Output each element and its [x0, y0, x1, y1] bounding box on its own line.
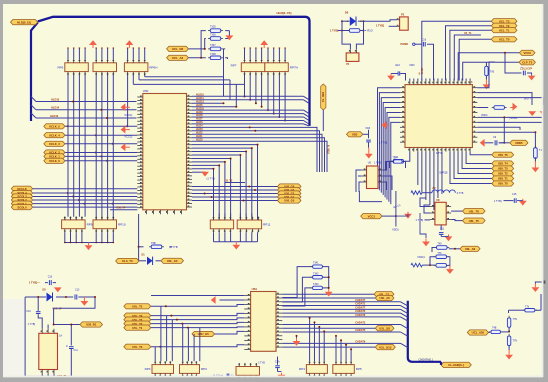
svg-text:UCL_A3: UCL_A3: [172, 56, 184, 60]
svg-text:U3L_A6: U3L_A6: [465, 247, 476, 251]
tick mark right edge: [544, 281, 546, 284]
wire thick into label: [440, 362, 442, 365]
wire C11 down to arrow: [368, 142, 370, 147]
wires RP11 top pins up: [213, 213, 215, 220]
inductor L2: [432, 190, 455, 193]
svg-text:1 TYB]—: 1 TYB]—: [29, 281, 40, 285]
net label UCLK_5: [44, 124, 65, 129]
wires RP12/13 bottom stubs: [154, 376, 156, 378]
wire cap C15: [504, 200, 514, 202]
wire C11B node: [70, 325, 72, 346]
wire node down to VDD1 text: [395, 216, 397, 226]
net label U5L_T1: [124, 325, 151, 330]
wire U5A pin0 long left: [151, 295, 244, 297]
net label U5U_G5 mid wire: [192, 331, 215, 336]
svg-text:CHDAT2: CHDAT2: [355, 322, 366, 325]
svg-text:U50_G0: U50_G0: [284, 199, 295, 203]
wires RP7 bottom columns staircase to U50 rows: [244, 74, 246, 96]
wires U5B bottom pins down: [41, 374, 43, 376]
wire PGND to C16: [415, 43, 422, 45]
wire T4B to junction2: [502, 331, 510, 333]
wire T343 left down: [282, 288, 311, 306]
wires U50 right pins HLD rows to bus: [192, 95, 304, 97]
wire T335 left lead down: [201, 31, 206, 58]
svg-text:CLP_T5: CLP_T5: [522, 60, 533, 64]
svg-text:RP4: RP4: [299, 367, 305, 371]
svg-text:U5A: U5A: [252, 287, 258, 291]
svg-text:U3L_2/15: U3L_2/15: [379, 345, 392, 349]
svg-text:RP9: RP9: [87, 223, 93, 227]
wire U5A right pin1 to label U3L_A5: [282, 297, 375, 299]
wires RP9/RP10 bottom pins to ground rail: [64, 232, 66, 242]
wire U5A right pin14 to label U3L_2/15: [282, 346, 375, 348]
window frame left: [0, 0, 3, 382]
wire C12 to arrow: [440, 235, 442, 237]
wire T49 to label U3L_A6: [449, 248, 460, 250]
svg-text:C1A: C1A: [275, 360, 280, 363]
svg-text:CHDAT6: CHDAT6: [355, 314, 366, 317]
svg-text:T49: T49: [437, 243, 442, 246]
wires QFP left pins bend down: [378, 88, 401, 188]
net label U3L_T6: [463, 209, 486, 214]
svg-text:CHDAT1: CHDAT1: [355, 303, 366, 306]
IC U5A left pins: [244, 294, 250, 296]
net label VCC0: [519, 50, 535, 55]
wire T1b left: [390, 161, 393, 168]
wire QFP top pin to VCC0 label: [458, 53, 519, 81]
svg-text:CL−CHD[0..]: CL−CHD[0..]: [448, 363, 464, 367]
net label U50_R1: [80, 322, 103, 327]
power arrow below C13: [81, 301, 89, 306]
capacitor C16 bottom: [49, 280, 51, 285]
svg-text:T337: T337: [210, 44, 216, 47]
resistor T343: [310, 286, 324, 289]
IC U50 left pins: [137, 96, 143, 98]
resistor network RP13: [180, 361, 208, 377]
wire T1A resistor chain right edge: [534, 132, 536, 149]
IC U6 body: [367, 166, 379, 189]
svg-text:RP7H: RP7H: [290, 65, 298, 69]
svg-text:PGND: PGND: [401, 42, 409, 46]
wire L-shape from top: [359, 191, 382, 202]
wire QFP right row4 through resistor T30: [477, 107, 488, 109]
svg-text:C13: C13: [75, 288, 80, 291]
svg-text:∘-R2O: ∘-R2O: [365, 29, 373, 33]
power arrow below U50 right pin: [201, 172, 209, 177]
net label U3L_A6: [460, 246, 480, 251]
resistor network RP11L: [210, 217, 233, 233]
IC U4 top pins: [408, 81, 410, 85]
resistor network RP6M: [93, 59, 117, 75]
wire top row with D5 and C13: [25, 296, 46, 298]
svg-text:T343: T343: [313, 283, 319, 286]
wire U50 pin to power arrow stub: [192, 171, 205, 173]
wire QFP top pin to CLP label: [463, 62, 519, 80]
power arrow right of VCC1 node: [404, 212, 412, 219]
IC U50 right pins: [187, 95, 193, 97]
window frame bottom: [0, 377, 548, 382]
wire QFP right row2 to corner arrows: [477, 98, 543, 105]
svg-text:|XUT7: |XUT7: [524, 98, 532, 101]
svg-text:VD5: VD5: [352, 132, 358, 136]
svg-text:C11: C11: [440, 228, 445, 231]
wires RP6M bottom columns down to RP10: [95, 74, 97, 217]
wires U50 lower right pins to label stack: [192, 186, 278, 188]
IC U5B top pins: [41, 329, 43, 334]
svg-text:HLD[0..15]: HLD[0..15]: [17, 20, 31, 24]
svg-text:1 TYB]: 1 TYB]: [330, 29, 338, 33]
net label U50_G4: [278, 184, 302, 189]
net label U5X_T3: [492, 166, 514, 171]
net label U5L_T2: [124, 321, 151, 326]
svg-text:UCLK_5: UCLK_5: [49, 124, 60, 128]
resistor T4B: [489, 330, 503, 333]
svg-text:(1 TYB: (1 TYB: [169, 245, 178, 249]
wire U50_1P node: [54, 297, 95, 318]
svg-text:UCLK_0: UCLK_0: [49, 159, 60, 163]
net label U5L_T4: [124, 313, 151, 318]
wires QFP bottom middle cols down: [421, 152, 423, 193]
wire from QFP col down to U8 left pins: [420, 198, 430, 207]
wire T342 left down: [282, 277, 311, 302]
resistor T7b chain: [523, 309, 537, 312]
wire QFP right row VDD1: [477, 116, 542, 118]
wire right chain top: [535, 282, 543, 284]
wire D6 row to connector P2: [366, 20, 397, 21]
svg-text:N_0919: N_0919: [327, 145, 330, 154]
wire QFP right row0 up: [477, 62, 495, 88]
svg-text:RP10: RP10: [118, 223, 126, 227]
capacitor C11 under VD5: [366, 140, 371, 142]
svg-text:1 TYB]: 1 TYB]: [416, 219, 424, 222]
svg-text:UCLK_3: UCLK_3: [49, 142, 60, 146]
resistor T7b2 row: [434, 255, 449, 259]
net label UCL_D3: [167, 46, 189, 51]
input arrow VCC1 left of U50 row2: [121, 126, 130, 134]
svg-text:U3L_2/5: U3L_2/5: [379, 326, 390, 330]
resistor network RP7L: [241, 59, 264, 75]
svg-text:U5X_T3: U5X_T3: [498, 167, 508, 171]
net label U3L_G3: [161, 258, 184, 263]
svg-text:E10: E10: [396, 64, 401, 67]
svg-text:ULA_T3: ULA_T3: [122, 259, 133, 263]
wires RP7 top pins up: [244, 48, 246, 59]
resistor T338: [208, 56, 223, 60]
IC U5A right pins: [276, 293, 282, 295]
svg-text:CHDAT6: CHDAT6: [355, 340, 366, 343]
svg-text:P1: P1: [346, 62, 350, 66]
power arrow VCC over RP6H: [126, 40, 134, 48]
IC U8 pins: [430, 205, 435, 207]
power arrow right of C15: [519, 199, 527, 206]
IC U5A body: [251, 292, 276, 352]
resistor network RP11H: [237, 217, 271, 233]
wire U6 left pins: [356, 170, 362, 192]
svg-text:TTb: TTb: [437, 252, 442, 255]
svg-text:U3L_T6: U3L_T6: [469, 209, 480, 213]
wire QFP right row1 to corner arrows: [477, 93, 532, 105]
IC U50 body: [143, 94, 187, 210]
sheet pale corner bottom-left: [3, 299, 24, 377]
wire HLD14: [36, 109, 137, 111]
tick mark right edge over frame: [544, 281, 546, 284]
capacitor E10: [398, 71, 400, 75]
IC U4 bottom pins: [408, 148, 410, 152]
svg-text:VCC0: VCC0: [523, 51, 531, 55]
net label U3L_A5: [375, 295, 394, 300]
svg-text:1 TYB]: 1 TYB]: [494, 200, 502, 203]
wire C1A down: [277, 368, 279, 371]
wire zigzag to Tb resistor: [422, 264, 435, 266]
svg-text:HLD5: HLD5: [196, 104, 203, 107]
net label U5X_T1: [492, 176, 514, 181]
svg-text:T9B: T9B: [151, 242, 156, 245]
wires U5A left pins to label column: [151, 305, 245, 307]
net label U50_G1: [278, 194, 302, 199]
resistor T7N vertical: [507, 316, 510, 330]
resistor network RP7H: [265, 59, 298, 75]
bus entry HLD13: [31, 113, 36, 118]
net label UCL_T1: [491, 28, 517, 33]
net label U50_G2: [278, 191, 302, 196]
input arrow left of QFP: [382, 121, 389, 129]
net label UCL_T0: [491, 37, 517, 42]
IC U8 body: [435, 202, 446, 225]
resistor T341: [310, 265, 324, 268]
svg-text:T342: T342: [313, 272, 319, 275]
wire into inductor: [422, 192, 432, 194]
power arrow below RP9/RP10: [85, 245, 93, 250]
resistor network RP12: [145, 361, 174, 377]
svg-text:T7N: T7N: [513, 340, 518, 343]
window inner highlight right: [542, 4, 544, 377]
svg-text:HLD[0..15]: HLD[0..15]: [277, 11, 292, 15]
wires RP9 top pins up to horizontal wires: [64, 217, 66, 220]
IC U6 pins: [362, 169, 367, 171]
svg-text:U3 #1: U3 #1: [420, 68, 423, 75]
svg-text:U5X_T1: U5X_T1: [498, 177, 508, 181]
svg-text:T7N: T7N: [513, 318, 518, 321]
svg-text:CHDATA[0..]: CHDATA[0..]: [419, 358, 434, 362]
wire U50 area down to T9B: [138, 214, 140, 261]
net label ULA_T3: [116, 258, 139, 263]
wires RP11 bottom pins to ground rail: [213, 232, 215, 242]
wire U8 right pin1 to label U3L_T6: [451, 210, 462, 212]
wires QFP remaining top pins short stubs: [409, 79, 411, 81]
bus CHDATA vertical: [408, 301, 441, 362]
net label U5L_T5: [124, 304, 151, 309]
svg-text:C10: C10: [26, 310, 31, 313]
net label UCLK_0: [44, 158, 65, 163]
wire below vertical label: [322, 110, 324, 131]
wire E10 node: [391, 74, 406, 81]
resistor T335: [208, 29, 223, 33]
svg-text:VCC1: VCC1: [368, 214, 376, 218]
resistor T342: [310, 276, 324, 279]
wire U50 row HLD12 up at x222: [192, 102, 224, 104]
power arrow chain top: [532, 287, 540, 292]
wire U8 right pin2 to label U3L_T5: [451, 220, 462, 221]
svg-text:U5L_T5: U5L_T5: [132, 304, 143, 308]
wires QFP bottom cols to right label stack: [470, 152, 492, 155]
IC U5B body: [39, 333, 58, 369]
wires U50 rows to middle vertical bundle: [192, 127, 317, 172]
wire UCL_D3 label to resistor T337: [189, 48, 206, 50]
svg-text:HLD15: HLD15: [51, 97, 60, 101]
wire T51 top: [485, 62, 487, 66]
net label VDD5: [510, 140, 528, 145]
net label SCOL4: [11, 190, 32, 195]
net label SCOL3: [11, 194, 32, 199]
wire D6 loop right vertical: [356, 21, 363, 49]
header P1 body: [346, 53, 359, 62]
power arrow below C11: [365, 154, 373, 159]
resistor network RP10: [93, 217, 126, 233]
svg-text:VCC1]: VCC1]: [124, 113, 132, 117]
wire from RP6H pin2 right: [133, 83, 244, 85]
wire U5B pin2 up: [47, 325, 49, 329]
wire T338 right lead down: [225, 58, 227, 59]
svg-text:(1 TYB: (1 TYB: [207, 177, 216, 181]
resistor T9B: [149, 245, 164, 249]
svg-text:U5X_T4: U5X_T4: [498, 162, 508, 166]
IC U4 QFP body: [405, 85, 472, 148]
svg-text:SHPQE: SHPQE: [439, 171, 448, 174]
svg-text:UCL_T1: UCL_T1: [499, 28, 510, 32]
net label VD5: [347, 132, 363, 137]
vertical label U50_TX on wire: [321, 84, 326, 110]
svg-text:U50_TX: U50_TX: [321, 92, 325, 102]
wires U50 rows staircase down to RP11: [192, 145, 258, 217]
svg-text:VDD1: VDD1: [481, 114, 488, 117]
svg-text:CHDAT7: CHDAT7: [355, 306, 366, 309]
wires far-left net labels to U50 pins: [33, 188, 138, 190]
resistor T51: [485, 64, 488, 78]
svg-text:T338: T338: [210, 53, 216, 56]
zigzag resistor bottom left of U8: [411, 263, 422, 267]
header P1 pins: [349, 50, 351, 53]
wire C10 down: [38, 314, 42, 329]
net label U3L_2/15: [375, 345, 395, 350]
svg-text:T336: T336: [210, 34, 216, 37]
resistor T336: [208, 37, 223, 41]
resistor network RP16: [236, 363, 260, 379]
bus HLD[0..15] main: [31, 23, 38, 122]
svg-text:CHDAT7: CHDAT7: [355, 299, 366, 302]
resistor network RP14: [299, 361, 327, 377]
window inner highlight bottom edge: [3, 376, 543, 378]
svg-text:SCOL0: SCOL0: [17, 205, 27, 209]
power arrow below T335: [226, 35, 234, 40]
wire QFP right row7: [477, 121, 542, 123]
wire T336 left lead down: [205, 39, 206, 49]
IC U50 bottom pins: [145, 210, 147, 215]
wires columns down to RP15: [335, 336, 337, 361]
net label U5X_T0: [492, 181, 514, 186]
wire C1A node: [277, 357, 279, 365]
resistor R zigzag left: [411, 191, 422, 195]
svg-text:HLD0: HLD0: [196, 138, 203, 141]
wire T337 right lead down: [224, 49, 226, 96]
net label U5L_T3: [124, 317, 151, 322]
power arrow top partial: [54, 287, 62, 292]
net label U50_G3: [278, 187, 302, 192]
capacitor C1A: [275, 366, 280, 368]
power arrow VCC over RP7: [260, 40, 268, 48]
net label UCL_T2: [491, 23, 517, 28]
svg-text:CHDAT5: CHDAT5: [355, 329, 366, 332]
svg-text:U50_R1: U50_R1: [86, 323, 97, 327]
wire main loop vertical left: [24, 297, 26, 376]
resistor T10: [391, 160, 404, 163]
net label U5X_T5: [492, 152, 514, 157]
wire U6 right pins lower: [383, 176, 392, 190]
svg-text:U5X_T0: U5X_T0: [498, 182, 508, 186]
net label SCCLK: [11, 186, 32, 191]
bus entry HLD14: [31, 105, 36, 110]
junction dots on left vertical columns: [67, 192, 69, 194]
svg-text:T341: T341: [313, 262, 319, 265]
window inner highlight bottom: [3, 376, 543, 378]
junction dots lower fan: [204, 193, 206, 195]
svg-text:1 TYB: 1 TYB: [258, 361, 265, 364]
wire D5 to C13: [56, 296, 73, 298]
wire U5A right pin9 to label U3L_2/5: [282, 327, 375, 329]
net label UCLK_4: [44, 133, 65, 138]
wire D6 anode/cathode row: [341, 20, 350, 22]
wires RP6H top pins up: [127, 48, 129, 59]
net label CLP_T5: [519, 60, 535, 65]
power arrow top right corner 2: [540, 111, 548, 116]
svg-text:VDD1: VDD1: [392, 228, 399, 231]
power arrow below T1A: [532, 168, 540, 173]
svg-text:RP11: RP11: [263, 223, 271, 227]
wire junction down to T7N: [508, 310, 510, 313]
wire C11B down: [70, 349, 72, 376]
wire D6 loop left vertical: [342, 21, 350, 49]
wire chain corner: [535, 294, 541, 310]
wire T10 right: [403, 162, 405, 169]
wires U5A right pins to CHDATA bus: [282, 301, 400, 303]
wire T335/T336 right leads to arrow stem: [225, 31, 229, 39]
svg-text:1 TYB]: 1 TYB]: [376, 24, 384, 28]
wire label U50_R1 to U5B pin: [54, 318, 80, 325]
svg-text:VDD5: VDD5: [515, 141, 523, 145]
wire to cap C17: [505, 53, 522, 73]
svg-text:RP3: RP3: [201, 367, 207, 371]
svg-text:VDD: VDD: [409, 64, 414, 67]
wire UCL_A3 label to resistor T338: [189, 57, 206, 59]
wires T34x right to common vertical: [323, 267, 328, 289]
net label U5X_T4: [492, 161, 514, 166]
net label U5X_T2: [492, 171, 514, 176]
capacitor C17 polarized: [523, 71, 525, 76]
power arrow below E10 wire: [387, 76, 395, 81]
wires left net labels to U50 pins: [65, 125, 137, 127]
svg-text:≡: ≡: [66, 344, 68, 348]
input arrow VCC1 left of U50 row1: [121, 103, 130, 111]
svg-text:VDD(1: VDD(1: [417, 256, 425, 259]
svg-text:UCL_A55: UCL_A55: [472, 331, 485, 335]
wire T7b left to junction: [509, 309, 525, 311]
svg-text:U5X_T5: U5X_T5: [498, 153, 508, 157]
power arrow left below U8: [422, 239, 430, 247]
window frame right: [543, 0, 548, 382]
wire T9B left: [139, 246, 144, 248]
wire vertical node x395.9: [395, 191, 397, 216]
svg-text:U50_TP: U50_TP: [116, 206, 126, 209]
wire C16 right down to QFP: [427, 44, 434, 80]
